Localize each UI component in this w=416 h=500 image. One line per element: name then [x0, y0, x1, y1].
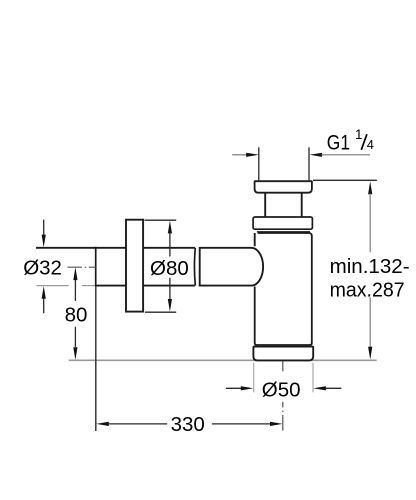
min/max top extension line	[313, 179, 377, 181]
inlet pipe bottom edge (gray left segments)	[37, 285, 69, 287]
G1 1/4 dim tail right	[322, 154, 371, 156]
Ø50 dim tail right	[325, 387, 341, 389]
inlet pipe top edge	[36, 247, 195, 249]
svg-text:Ø80: Ø80	[150, 257, 189, 280]
Ø80 top extension line	[145, 219, 177, 221]
330 left extension line	[95, 287, 97, 432]
80 dim arrow down	[73, 347, 77, 360]
80 dim line lower	[74, 327, 76, 347]
pipe centerline	[68, 266, 96, 268]
svg-text:330: 330	[171, 413, 205, 436]
Ø80 arrow up	[168, 221, 172, 234]
svg-text:4: 4	[367, 137, 374, 152]
bottom cap	[253, 347, 313, 361]
pipe joint line	[95, 247, 97, 287]
svg-text:max.287: max.287	[330, 278, 405, 301]
coupling nut	[253, 217, 312, 229]
330 dim line right	[212, 423, 271, 425]
svg-text:Ø32: Ø32	[23, 257, 62, 280]
trap body tube	[255, 233, 312, 345]
svg-text:min.132-: min.132-	[330, 255, 410, 278]
svg-text:1: 1	[355, 127, 363, 142]
G1 1/4 extension line left	[258, 147, 260, 181]
wall flange Ø80	[126, 220, 143, 312]
min/max arrow down	[368, 347, 372, 360]
bottom reference line	[69, 359, 377, 361]
330 arrow left	[96, 422, 109, 426]
G1 1/4 dim tail left	[232, 154, 247, 156]
80 dim arrow up	[73, 267, 77, 280]
Ø80 bottom extension line	[145, 311, 176, 313]
80 dim line upper	[74, 280, 76, 301]
inlet pipe bottom edge (black right segment)	[96, 285, 196, 287]
body left edge upper	[254, 233, 256, 246]
body inlet fitting	[200, 248, 263, 286]
Ø50 dim tail left	[226, 387, 242, 389]
pipe end curve	[193, 248, 196, 286]
min/max arrow up	[368, 181, 372, 194]
Ø50 left extension line	[253, 363, 255, 393]
min/max dim line lower	[369, 297, 371, 347]
top flange	[255, 181, 312, 193]
G1 1/4 extension line right	[308, 147, 310, 181]
Ø50 arrow left	[241, 386, 254, 390]
Ø80 dim line upper	[169, 233, 171, 257]
Ø50 right extension line	[312, 363, 314, 393]
neck tube	[264, 193, 266, 217]
Ø32 arrow down (top)	[43, 220, 45, 236]
min/max dim line upper	[369, 194, 371, 253]
svg-text:G1: G1	[327, 131, 350, 154]
Ø80 arrow down	[168, 299, 172, 312]
Ø80 dim line lower	[169, 278, 171, 300]
body centerline	[282, 361, 284, 431]
svg-text:Ø50: Ø50	[262, 379, 301, 402]
G1 1/4 arrow left	[246, 153, 259, 157]
Ø32 arrow up (bottom)	[42, 286, 46, 299]
G1 1/4 arrow right	[310, 153, 323, 157]
body seam line	[257, 231, 310, 233]
Ø50 arrow right	[313, 386, 326, 390]
330 dim line left	[108, 423, 167, 425]
330 arrow right	[270, 422, 283, 426]
svg-text:80: 80	[65, 303, 88, 326]
